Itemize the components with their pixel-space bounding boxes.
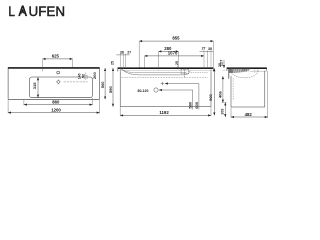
svg-text:127: 127: [219, 59, 224, 66]
side slab: [227, 68, 267, 71]
svg-text:1070: 1070: [168, 50, 178, 55]
plan dim 1200: [8, 100, 99, 114]
svg-text:1200: 1200: [51, 107, 61, 112]
front cabinet: [120, 71, 211, 106]
svg-text:25: 25: [175, 61, 179, 65]
svg-text:315: 315: [32, 82, 37, 89]
plan tap hole: [57, 71, 60, 74]
svg-text:406: 406: [218, 91, 223, 98]
front bowl curves: [118, 69, 213, 71]
logo LAUFEN: [8, 4, 65, 19]
svg-text:203: 203: [221, 109, 225, 115]
dim 580: [159, 90, 193, 110]
dim 600: [165, 84, 199, 110]
svg-text:27: 27: [127, 51, 131, 55]
plan dim 625: [43, 59, 73, 71]
side cabinet: [231, 71, 265, 107]
plan dim 860: [24, 98, 93, 105]
cabinet dashed hidden line: [122, 77, 208, 79]
supply cross: [161, 82, 165, 86]
svg-text:25: 25: [111, 61, 115, 65]
svg-text:500: 500: [100, 81, 105, 88]
plan tap option dashed box: [84, 73, 88, 81]
svg-text:482: 482: [245, 112, 253, 117]
plan outline: [8, 68, 100, 99]
plan dim 315: [32, 77, 38, 97]
side dim 482: [231, 71, 268, 118]
side tap hidden: [255, 69, 257, 73]
svg-text:855: 855: [172, 36, 180, 41]
svg-text:590: 590: [108, 86, 113, 93]
supply circle: [154, 88, 158, 92]
svg-text:900: 900: [208, 93, 213, 100]
svg-text:625: 625: [52, 53, 60, 58]
svg-text:80-120: 80-120: [138, 89, 149, 93]
plan bowl: [29, 77, 92, 98]
svg-text:38: 38: [208, 47, 212, 51]
svg-text:580: 580: [188, 101, 193, 108]
plan centerline dashed: [64, 81, 88, 83]
svg-text:50: 50: [82, 74, 86, 78]
dim 900 right of front: [213, 68, 215, 115]
svg-text:1192: 1192: [159, 110, 169, 115]
svg-text:600: 600: [194, 101, 199, 108]
svg-text:860: 860: [52, 99, 60, 104]
svg-text:200: 200: [92, 72, 97, 79]
side basin section hatch: [229, 69, 251, 73]
dim 590: [112, 68, 114, 107]
plan drain symbol: [56, 80, 61, 85]
front dim 280: [159, 51, 179, 69]
side bowl profile dashed: [231, 70, 259, 78]
front dim 1070: [144, 56, 204, 68]
svg-text:UFEN: UFEN: [29, 4, 66, 19]
front slab: [118, 68, 214, 72]
svg-text:27: 27: [202, 47, 206, 51]
front tap dashed: [181, 69, 189, 78]
front dim 1192: [120, 107, 211, 116]
front dim 855: [139, 41, 213, 67]
svg-text:L: L: [8, 4, 15, 19]
dim 500 (plan depth): [104, 68, 106, 99]
